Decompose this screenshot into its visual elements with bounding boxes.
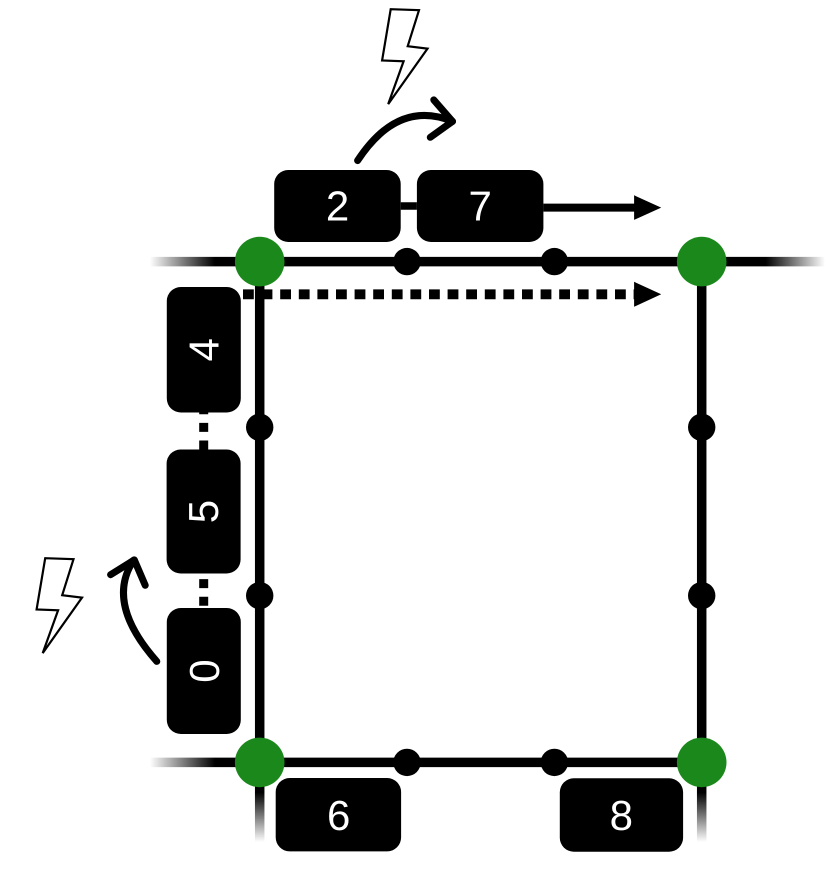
connector 2-7 [401,202,417,210]
junction dot bottom 2 [541,749,568,776]
dotted arrow [243,282,661,307]
node bottom-right [677,738,727,788]
box 4 [167,287,241,413]
box 5 [167,450,241,574]
wire right bottom stub [697,762,707,842]
svg-text:2: 2 [326,183,349,230]
svg-text:5: 5 [180,500,227,523]
dotted connector 5-0 [199,574,208,608]
solid arrow after box 7 [543,195,661,220]
wire right edge [697,262,707,763]
dotted connector 4-5 [199,413,208,450]
node top-left [235,237,285,287]
box 2 [274,170,401,242]
curved arrow top [358,100,453,161]
junction dot left 1 [246,414,273,441]
svg-text:7: 7 [469,183,492,230]
wire left bottom stub [255,762,265,842]
junction dot bottom 1 [393,749,420,776]
box 8 [560,778,683,851]
node top-right [677,237,727,287]
node bottom-left [235,738,285,788]
junction dot top 1 [393,248,420,275]
wire left edge [255,262,265,763]
box 6 [276,778,401,851]
svg-text:0: 0 [181,659,228,682]
wire bottom edge [150,758,702,768]
junction dot top 2 [541,248,568,275]
box 7 [417,170,544,242]
lightning bolt top [382,9,427,104]
wire top edge [150,257,828,267]
junction dot right 1 [688,414,715,441]
svg-text:8: 8 [610,792,633,839]
svg-text:4: 4 [181,338,228,361]
lightning bolt left [37,558,82,653]
svg-text:6: 6 [327,792,350,839]
curved arrow left [111,560,157,662]
junction dot right 2 [688,582,715,609]
box 0 [167,608,241,734]
junction dot left 2 [246,582,273,609]
